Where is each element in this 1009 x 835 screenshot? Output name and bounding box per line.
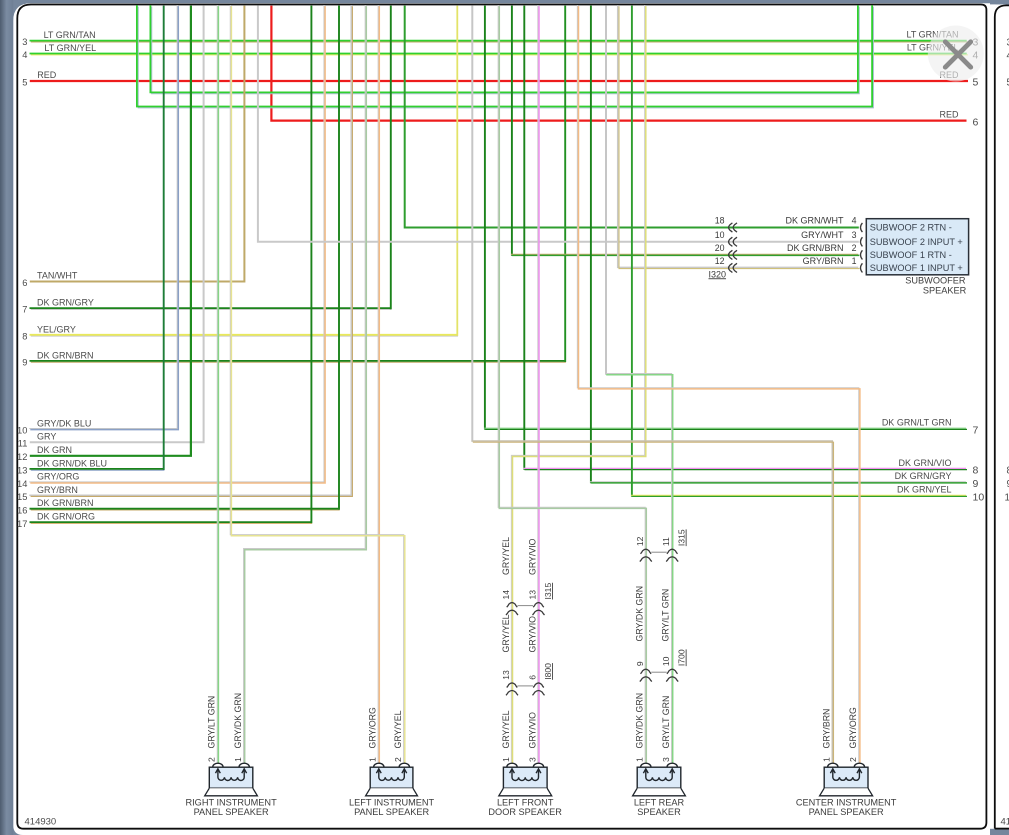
wire 11 GRY <box>30 6 204 443</box>
wire GRY/LT GRN to left rear pin 3 <box>605 374 673 764</box>
svg-text:SPEAKER: SPEAKER <box>923 285 967 295</box>
wire right 9 riser <box>590 6 592 484</box>
svg-text:6: 6 <box>973 116 979 128</box>
svg-text:8: 8 <box>22 331 27 341</box>
wire 9 DK GRN/BRN riser <box>564 6 566 362</box>
svg-text:SUBWOOF 2 INPUT +: SUBWOOF 2 INPUT + <box>870 237 963 247</box>
wire DK GRN/WHT to subwoofer pin 4 <box>405 6 859 228</box>
svg-text:GRY/LT GRN: GRY/LT GRN <box>207 696 217 749</box>
wire right 7 riser <box>484 6 486 430</box>
svg-text:SPEAKER: SPEAKER <box>637 807 681 817</box>
wire GRY/BRN riser to center pin 1 <box>471 6 473 442</box>
svg-text:I315: I315 <box>677 529 687 546</box>
wire 13 DK GRN/DK BLU <box>30 469 165 470</box>
svg-text:DK GRN/DK BLU: DK GRN/DK BLU <box>37 458 107 468</box>
svg-text:RED: RED <box>939 109 959 119</box>
wire GRY/VIO to left front door pin 3 <box>538 5 539 764</box>
svg-text:GRY/DK BLU: GRY/DK BLU <box>37 418 91 428</box>
svg-text:GRY/BRN: GRY/BRN <box>803 256 844 266</box>
svg-text:3: 3 <box>661 757 671 762</box>
wire 15 GRY/BRN <box>29 5 352 496</box>
svg-text:12: 12 <box>17 452 27 462</box>
svg-text:9: 9 <box>22 358 27 368</box>
wire 7 DK GRN/GRY riser <box>390 6 392 310</box>
svg-text:GRY/VIO: GRY/VIO <box>527 538 537 575</box>
svg-text:13: 13 <box>501 670 511 680</box>
svg-text:DK GRN/GRY: DK GRN/GRY <box>37 298 94 308</box>
svg-text:I800: I800 <box>543 663 553 680</box>
svg-text:DK GRN/YEL: DK GRN/YEL <box>897 485 952 495</box>
wire 8 YEL/GRY <box>30 335 459 336</box>
svg-text:5: 5 <box>22 77 27 87</box>
svg-text:13: 13 <box>17 466 27 476</box>
svg-text:15: 15 <box>17 492 27 502</box>
svg-text:1: 1 <box>852 256 857 266</box>
svg-text:GRY/ORG: GRY/ORG <box>848 707 858 749</box>
wire 5 RED (left pin 5 to right pin 5) <box>30 80 968 82</box>
svg-text:2: 2 <box>848 757 858 762</box>
wire RED from top to right pin 6 <box>271 6 966 121</box>
svg-text:2: 2 <box>852 243 857 253</box>
speaker LEFT INSTRUMENT PANEL SPEAKER <box>366 763 418 796</box>
wire 12 DK GRN <box>30 6 191 456</box>
inline connector I315 <box>506 603 545 615</box>
svg-text:DOOR SPEAKER: DOOR SPEAKER <box>488 807 562 817</box>
wire 16 DK GRN/BRN riser <box>338 6 340 510</box>
inline connector I800 <box>506 683 545 695</box>
svg-text:TAN/WHT: TAN/WHT <box>37 271 78 281</box>
wire 6 TAN/WHT <box>30 6 245 282</box>
wire 10 GRY/DK BLU <box>29 5 178 430</box>
svg-text:LT GRN/TAN: LT GRN/TAN <box>44 30 96 40</box>
wire LT GRN loop A (top x137 to top x873) <box>137 5 874 108</box>
svg-text:GRY/BRN: GRY/BRN <box>822 709 832 749</box>
svg-text:GRY/LT GRN: GRY/LT GRN <box>661 589 671 642</box>
svg-text:I700: I700 <box>677 649 687 666</box>
svg-text:GRY/YEL: GRY/YEL <box>501 537 511 575</box>
svg-text:3: 3 <box>527 757 537 762</box>
speaker LEFT FRONT DOOR SPEAKER <box>499 763 552 796</box>
svg-text:GRY/ORG: GRY/ORG <box>368 707 378 749</box>
svg-text:6: 6 <box>22 278 27 288</box>
svg-text:DK GRN/ORG: DK GRN/ORG <box>37 512 95 522</box>
svg-text:SUBWOOF 1 RTN -: SUBWOOF 1 RTN - <box>870 250 952 260</box>
svg-text:DK GRN/LT GRN: DK GRN/LT GRN <box>882 418 952 428</box>
wire right 7 DK GRN/LT GRN <box>484 428 967 429</box>
svg-text:414930: 414930 <box>25 817 57 828</box>
wire GRY/YEL to left front door pin 1 <box>511 5 645 764</box>
svg-text:41: 41 <box>1001 817 1009 828</box>
svg-text:10: 10 <box>1005 493 1009 504</box>
svg-text:GRY/DK GRN: GRY/DK GRN <box>233 693 243 749</box>
wire 4 LT GRN/YEL (left pin 4 to right pin 4) <box>30 54 969 55</box>
svg-text:GRY/VIO: GRY/VIO <box>527 712 537 749</box>
svg-text:7: 7 <box>22 305 27 315</box>
svg-text:GRY/VIO: GRY/VIO <box>527 616 537 653</box>
wire GRY/ORG to left instrument pin 1 <box>378 5 379 764</box>
wire DK GRN/BRN to subwoofer pin 2 <box>511 254 859 255</box>
svg-text:11: 11 <box>18 439 28 449</box>
svg-text:SUBWOOF 1 INPUT +: SUBWOOF 1 INPUT + <box>870 263 963 273</box>
wire right 10 DK GRN/YEL <box>631 495 967 496</box>
speaker CENTER INSTRUMENT PANEL SPEAKER <box>820 763 873 796</box>
svg-text:GRY/DK GRN: GRY/DK GRN <box>635 693 645 749</box>
wire 7 DK GRN/GRY <box>30 308 392 309</box>
wire right 10 riser <box>631 6 633 497</box>
wire GRY/WHT to subwoofer pin 3 <box>258 6 859 242</box>
svg-text:YEL/GRY: YEL/GRY <box>37 324 76 334</box>
wire 9 DK GRN/BRN <box>30 361 566 362</box>
svg-text:PANEL SPEAKER: PANEL SPEAKER <box>194 807 269 817</box>
svg-text:1: 1 <box>822 757 832 762</box>
svg-text:GRY: GRY <box>37 432 56 442</box>
wire 13 DK GRN/DK BLU riser <box>163 6 165 470</box>
wire GRY/BRN to center pin 1 <box>472 441 834 764</box>
svg-text:SUBWOOFER: SUBWOOFER <box>905 276 966 286</box>
svg-text:20: 20 <box>715 243 725 253</box>
wire GRY/BRN to subwoofer pin 1 <box>618 5 860 269</box>
svg-text:PANEL SPEAKER: PANEL SPEAKER <box>354 807 429 817</box>
svg-text:9: 9 <box>973 478 979 490</box>
svg-text:10: 10 <box>17 425 27 435</box>
wire GRY/LT GRN to right instrument pin 2 <box>217 5 218 764</box>
svg-text:2: 2 <box>393 757 403 762</box>
svg-text:4: 4 <box>22 50 27 60</box>
svg-text:12: 12 <box>715 256 725 266</box>
svg-text:9: 9 <box>635 661 645 666</box>
svg-text:6: 6 <box>528 675 538 680</box>
svg-text:1: 1 <box>368 757 378 762</box>
svg-text:I320: I320 <box>709 269 727 279</box>
svg-text:1: 1 <box>233 757 243 762</box>
svg-text:10: 10 <box>715 230 725 240</box>
svg-text:DK GRN/VIO: DK GRN/VIO <box>898 458 951 468</box>
svg-text:7: 7 <box>973 425 979 437</box>
svg-text:8: 8 <box>973 465 979 477</box>
svg-text:1: 1 <box>501 757 511 762</box>
svg-text:SUBWOOF 2 RTN -: SUBWOOF 2 RTN - <box>870 223 952 233</box>
svg-text:17: 17 <box>17 519 27 529</box>
svg-text:18: 18 <box>715 216 725 226</box>
svg-text:LT GRN/YEL: LT GRN/YEL <box>44 43 96 53</box>
wire 14 GRY/ORG <box>29 5 325 483</box>
wire GRY/LT GRN riser to left rear pin 3 <box>605 6 607 375</box>
wire GRY/DK GRN to right instrument pin 1 <box>244 5 367 764</box>
inline connector I700 <box>640 669 678 681</box>
svg-text:GRY/BRN: GRY/BRN <box>37 485 78 495</box>
svg-text:GRY/DK GRN: GRY/DK GRN <box>635 586 645 642</box>
wire GRY/ORG to center pin 2 <box>577 5 860 764</box>
svg-text:11: 11 <box>661 537 671 546</box>
svg-text:RED: RED <box>37 70 57 80</box>
svg-text:10: 10 <box>661 656 671 666</box>
svg-text:DK GRN/BRN: DK GRN/BRN <box>37 350 94 360</box>
svg-text:DK GRN: DK GRN <box>37 445 72 455</box>
svg-text:3: 3 <box>852 230 857 240</box>
svg-text:GRY/WHT: GRY/WHT <box>801 230 844 240</box>
wire GRY/YEL to left instrument pin 2 <box>230 5 404 764</box>
close (X) button <box>928 26 984 82</box>
wire 17 DK GRN/ORG riser <box>310 6 312 524</box>
svg-text:PANEL SPEAKER: PANEL SPEAKER <box>809 807 884 817</box>
speaker LEFT REAR SPEAKER <box>633 763 686 796</box>
wire 3 LT GRN/TAN (left pin 3 to right pin 3) <box>30 41 969 42</box>
svg-text:5: 5 <box>973 77 979 89</box>
svg-text:DK GRN/BRN: DK GRN/BRN <box>787 243 844 253</box>
subwoofer speaker box U1 <box>866 219 968 275</box>
wire GRY/DK GRN to left rear pin 1 <box>498 5 646 764</box>
speaker RIGHT INSTRUMENT PANEL SPEAKER <box>205 763 258 796</box>
svg-text:1: 1 <box>635 757 645 762</box>
svg-text:GRY/YEL: GRY/YEL <box>393 710 403 748</box>
wire 16 DK GRN/BRN <box>30 509 340 510</box>
wire LT GRN loop B (top x151 to top x859) <box>150 5 859 93</box>
svg-text:16: 16 <box>17 505 27 515</box>
svg-text:14: 14 <box>501 590 511 600</box>
svg-text:DK GRN/WHT: DK GRN/WHT <box>786 216 844 226</box>
wire 17 DK GRN/ORG <box>30 522 313 523</box>
wire DK GRN/BRN riser to subwoofer pin 2 <box>511 6 513 256</box>
svg-text:DK GRN/BRN: DK GRN/BRN <box>37 498 94 508</box>
svg-text:4: 4 <box>852 216 857 226</box>
svg-text:GRY/ORG: GRY/ORG <box>37 472 79 482</box>
svg-text:I315: I315 <box>543 583 553 600</box>
wire right 8 DK GRN/VIO <box>524 468 968 469</box>
svg-text:DK GRN/GRY: DK GRN/GRY <box>895 471 952 481</box>
inline connector I315 <box>640 549 678 561</box>
svg-text:3: 3 <box>22 37 27 47</box>
svg-text:2: 2 <box>207 757 217 762</box>
svg-text:13: 13 <box>528 590 538 600</box>
svg-text:GRY/YEL: GRY/YEL <box>501 710 511 748</box>
svg-text:10: 10 <box>973 492 985 504</box>
svg-text:14: 14 <box>17 479 27 489</box>
svg-text:GRY/LT GRN: GRY/LT GRN <box>661 696 671 749</box>
wire right 8 riser <box>523 6 525 470</box>
wire right 9 DK GRN/GRY <box>590 482 967 483</box>
svg-text:12: 12 <box>635 536 645 546</box>
svg-text:GRY/YEL: GRY/YEL <box>501 614 511 652</box>
second page behind (right edge) <box>988 4 1009 828</box>
wire 8 YEL/GRY riser <box>456 6 458 336</box>
